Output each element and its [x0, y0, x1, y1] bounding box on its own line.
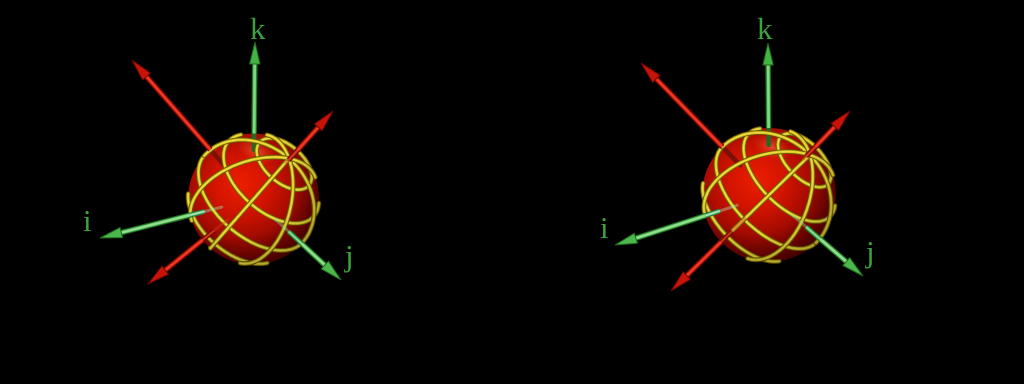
right arrow j: arrowhead	[843, 258, 863, 276]
right wireframe latitude ring 3	[716, 147, 816, 249]
left axis i: lit shaft over sphere face	[189, 207, 222, 215]
right red arrow upper-left: arrowhead	[641, 63, 660, 82]
right wireframe latitude ring 2	[744, 129, 836, 222]
right wireframe longitude ring 4	[704, 152, 833, 215]
left wireframe longitude ring 1	[204, 140, 314, 242]
right arrow j: shaft	[820, 239, 848, 263]
svg-text:j: j	[344, 238, 354, 273]
right red axis upper-right: lit shaft over sphere face	[803, 146, 816, 159]
right arrow k: shaft	[765, 63, 771, 128]
left wireframe longitude ring 2	[240, 135, 293, 264]
svg-text:k: k	[757, 11, 773, 46]
left figure: red sphere	[188, 134, 319, 265]
left red arrow lower-left: arrowhead	[148, 266, 168, 284]
left wireframe latitude ring 1	[257, 138, 312, 190]
right wireframe longitude ring 1	[722, 133, 831, 243]
left red arrow upper-right: shaft	[297, 126, 319, 151]
left arrow i: arrowhead	[100, 228, 123, 239]
right arrow i: shaft	[634, 216, 705, 239]
left wireframe latitude ring 3	[199, 156, 303, 251]
left red axis upper-right: lit shaft over sphere face	[286, 150, 298, 163]
left red axis lower-left: lit shaft over sphere face	[202, 220, 228, 241]
left figure: shading overlay	[185, 131, 322, 268]
right figure: red sphere	[702, 128, 836, 262]
left arrow j: arrowhead	[321, 261, 341, 280]
right figure: shading overlay	[699, 125, 839, 265]
left arrow j: shaft	[302, 244, 327, 267]
left red arrow lower-left: shaft	[164, 240, 203, 271]
left wireframe longitude ring 4	[190, 157, 315, 221]
left wireframe longitude ring 3	[210, 159, 289, 249]
svg-text:i: i	[83, 203, 92, 238]
right axis i: lit shaft over sphere face	[704, 205, 737, 216]
right figure: specular highlight	[749, 129, 794, 165]
left axis k: shaft over sphere face	[252, 135, 257, 150]
left red arrow upper-left: shaft	[145, 75, 210, 150]
right wireframe latitude ring 4	[703, 183, 780, 261]
left axis j: lit shaft over sphere face	[276, 220, 303, 245]
right axis j: lit shaft over sphere face	[792, 215, 820, 239]
right wireframe latitude ring 1	[778, 134, 831, 188]
right axis k: shaft over sphere face	[766, 129, 771, 145]
left wireframe latitude ring 4	[188, 194, 267, 264]
right wireframe longitude ring 3	[721, 155, 810, 242]
left arrow k: shaft	[251, 62, 257, 134]
left arrow k: arrowhead	[250, 42, 260, 64]
left red arrow upper-right: arrowhead	[314, 111, 333, 131]
left figure: specular highlight	[234, 133, 279, 169]
left wireframe latitude ring 2	[224, 135, 319, 224]
right red axis upper-left: shaft over sphere face	[723, 148, 740, 166]
right arrow k: arrowhead	[763, 43, 773, 65]
right red axis lower-left: lit shaft over sphere face	[720, 218, 745, 242]
right wireframe longitude ring 2	[748, 132, 813, 260]
right arrow i: arrowhead	[615, 233, 638, 245]
right red arrow lower-left: shaft	[685, 242, 721, 277]
left arrow i: shaft	[119, 215, 190, 233]
right red arrow upper-left: shaft	[655, 77, 723, 146]
svg-text:j: j	[865, 234, 875, 269]
left red axis upper-left: shaft over sphere face	[211, 150, 227, 168]
svg-text:i: i	[600, 210, 609, 245]
left red arrow upper-left: arrowhead	[132, 60, 150, 80]
svg-text:k: k	[250, 11, 266, 46]
right red arrow lower-left: arrowhead	[671, 272, 690, 291]
right red arrow upper-right: arrowhead	[831, 111, 850, 130]
right red arrow upper-right: shaft	[816, 125, 837, 146]
